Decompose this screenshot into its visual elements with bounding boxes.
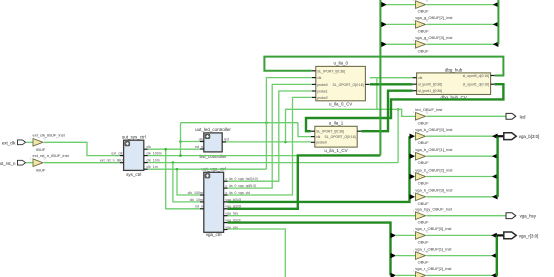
svg-text:OBUF: OBUF <box>418 28 430 33</box>
output port vga_b[3:0] <box>504 133 516 140</box>
svg-text:O: O <box>426 151 428 154</box>
svg-text:dbg_hub: dbg_hub <box>445 67 463 72</box>
svg-text:vga_r[3:0]: vga_r[3:0] <box>519 233 539 238</box>
svg-text:OBUF: OBUF <box>418 201 430 206</box>
svg-text:OBUF: OBUF <box>418 160 430 165</box>
wire to vga_b bus merge <box>427 135 498 137</box>
svg-text:clk: clk <box>317 76 321 80</box>
svg-text:sl_iport0_i[0:36]: sl_iport0_i[0:36] <box>418 83 442 87</box>
svg-text:ext_rst_n: ext_rst_n <box>0 161 16 166</box>
svg-text:O: O <box>426 131 428 134</box>
svg-text:ext_clk: ext_clk <box>2 140 16 145</box>
svg-text:sys_ctrl: sys_ctrl <box>126 172 141 177</box>
bus vga_r output merge vertical <box>496 235 498 276</box>
net vga_vsy <box>228 229 286 277</box>
svg-text:clk: clk <box>146 145 151 149</box>
junction rst_n <box>164 148 167 151</box>
svg-text:SL_OPORT_O[0:16]: SL_OPORT_O[0:16] <box>325 135 356 139</box>
svg-text:vga_hsy: vga_hsy <box>225 212 238 216</box>
wire clk riser near ila_0 <box>376 78 378 110</box>
junction clk at x265 <box>265 121 268 124</box>
svg-text:probe0: probe0 <box>317 83 328 87</box>
vga_ctrl right pins <box>224 180 228 182</box>
svg-text:clk: clk <box>418 76 422 80</box>
svg-text:sl_oport0_o[0:16]: sl_oport0_o[0:16] <box>463 74 489 78</box>
svg-text:OBUF: OBUF <box>418 260 430 265</box>
wire ext_rst_n port to IBUF <box>26 162 33 164</box>
u_ila_0 left pins <box>312 70 316 72</box>
buffer vga_g_OBUF[2]_inst <box>381 22 387 27</box>
wire ext_rst_n_IBUF to sys_ctrl <box>44 162 120 164</box>
svg-text:uut_sys_ctrl: uut_sys_ctrl <box>122 134 146 139</box>
svg-text:O: O <box>426 172 428 175</box>
svg-text:vga_b_OBUF[0]_inst: vga_b_OBUF[0]_inst <box>415 127 453 132</box>
bus vga_g output merge vertical <box>497 0 499 44</box>
svg-text:OBUF: OBUF <box>418 120 430 125</box>
svg-text:vga_b_OBUF[2]_inst: vga_b_OBUF[2]_inst <box>415 167 453 172</box>
svg-text:OBUF: OBUF <box>418 140 430 145</box>
net clk_1m <box>148 168 267 170</box>
svg-text:vga_b_OBUF[3]_inst: vga_b_OBUF[3]_inst <box>415 188 453 193</box>
svg-text:vga_g_OBUF[3]_inst: vga_g_OBUF[3]_inst <box>415 35 453 40</box>
svg-text:clk_10m: clk_10m <box>146 158 159 162</box>
buffer vga_g_OBUF[3]_inst <box>381 42 387 47</box>
svg-text:sl_oport1_o[0:16]: sl_oport1_o[0:16] <box>463 83 489 87</box>
output port vga_hsy <box>506 213 516 219</box>
wire vga_hsy to port <box>427 215 507 217</box>
wire to vga_g bus merge <box>427 4 499 6</box>
svg-text:O: O <box>426 230 428 233</box>
net vga_hsy <box>228 215 416 217</box>
u_ila_0 right pin SL_OPORT_O <box>365 83 369 85</box>
net o_ila_0_vga_hs0 <box>228 91 312 181</box>
wire to vga_r bus merge <box>427 274 497 276</box>
svg-text:clk_100m: clk_100m <box>188 191 203 195</box>
svg-text:clk_10m: clk_10m <box>190 198 203 202</box>
svg-text:vga_g_OBUF[2]_inst: vga_g_OBUF[2]_inst <box>415 15 453 20</box>
net o_ila_0_vga_vld <box>228 97 312 195</box>
bus vga_r : vga_ctrl to OBUF column <box>228 223 391 276</box>
svg-text:OBUF: OBUF <box>418 9 430 14</box>
bus u_ila_1 SL_OPORT_O to dbg_hub sl_iport1 <box>361 91 412 132</box>
wire to vga_b bus merge <box>427 176 498 178</box>
net led : led_controller to u_ila_1 probe0 and led_OBUF <box>226 141 311 143</box>
svg-text:O: O <box>426 39 428 42</box>
buffer vga_r_OBUF[0]_inst <box>391 233 397 238</box>
svg-text:OBUF: OBUF <box>418 181 430 186</box>
svg-text:IBUF: IBUF <box>36 167 46 172</box>
sys_ctrl right pins <box>144 148 148 150</box>
sys_ctrl left pins <box>120 155 124 157</box>
svg-text:vga_r_OBUF[1]_inst: vga_r_OBUF[1]_inst <box>415 246 452 251</box>
svg-text:u_ila_0_CV: u_ila_0_CV <box>329 102 352 107</box>
svg-text:vga_hsy_OBUF_inst: vga_hsy_OBUF_inst <box>415 207 453 212</box>
bus stub to vga_b port <box>498 135 504 137</box>
svg-text:O: O <box>426 111 428 114</box>
buffer vga_g_OBUF[1]_inst (clipped) <box>381 2 387 7</box>
svg-text:ext_clk: ext_clk <box>111 151 122 155</box>
net o_ila_0_vga_gd <box>228 84 312 188</box>
svg-text:clk: clk <box>199 137 204 141</box>
svg-text:probe2: probe2 <box>317 96 328 100</box>
svg-text:probe0: probe0 <box>316 141 327 145</box>
buffer vga_r_OBUF[2]_inst <box>391 273 397 277</box>
svg-text:OBUF: OBUF <box>418 48 430 53</box>
svg-text:ext_rst_n_IBUF_inst: ext_rst_n_IBUF_inst <box>33 153 70 158</box>
u_ila_1 left pins <box>311 130 315 132</box>
wire to vga_r bus merge <box>427 234 497 236</box>
wire to vga_g bus merge <box>427 23 499 25</box>
net clk to dbg_hub <box>370 77 413 79</box>
buffer vga_b_OBUF[1]_inst <box>410 154 416 159</box>
svg-text:O: O <box>426 270 428 273</box>
net clk_10m <box>148 162 398 164</box>
svg-text:SL_OPORT_O[0:16]: SL_OPORT_O[0:16] <box>333 83 364 87</box>
svg-text:u_ila_1: u_ila_1 <box>329 121 344 126</box>
u_ila_1 right pin SL_OPORT_O <box>357 130 361 132</box>
svg-text:rst_n: rst_n <box>195 205 203 209</box>
svg-text:IBUF: IBUF <box>36 147 46 152</box>
svg-text:vga_r_OBUF[0]_inst: vga_r_OBUF[0]_inst <box>415 226 452 231</box>
vga_ctrl left pins <box>200 194 204 196</box>
wire to vga_b bus merge <box>427 155 498 157</box>
svg-text:led: led <box>224 138 229 142</box>
svg-text:OBUF: OBUF <box>418 220 430 225</box>
bus vga_b : vga_ctrl to OBUF column <box>228 136 410 202</box>
wire ext_clk_IBUF to sys_ctrl ext_clk <box>44 142 120 155</box>
bus vga_g : vga_ctrl to top OBUF column <box>228 155 381 208</box>
svg-text:uut_led_controller: uut_led_controller <box>195 127 231 132</box>
svg-text:u_ila_1_CV: u_ila_1_CV <box>324 148 347 153</box>
svg-text:ext_clk_IBUF_inst: ext_clk_IBUF_inst <box>33 133 66 138</box>
svg-text:O: O <box>426 19 428 22</box>
output port vga_r[3:0] <box>504 232 516 239</box>
svg-text:vga_r_OBUF[2]_inst: vga_r_OBUF[2]_inst <box>415 266 452 271</box>
output port led <box>506 113 516 119</box>
bus vga_b output merge vertical <box>496 136 498 197</box>
svg-text:vga_b_OBUF[1]_inst: vga_b_OBUF[1]_inst <box>415 147 453 152</box>
dbg_hub left pins <box>413 77 417 79</box>
bus sl_oport0 : dbg_hub to u_ila_0 SL_IPORT_I <box>264 57 503 76</box>
buffer vga_b_OBUF[2]_inst <box>410 174 416 179</box>
svg-text:O: O <box>426 251 428 254</box>
svg-text:SL_IPORT_I[0:36]: SL_IPORT_I[0:36] <box>316 130 344 134</box>
led_controller pins <box>200 141 204 143</box>
svg-text:O: O <box>426 211 428 214</box>
buffer vga_b_OBUF[3]_inst <box>410 194 416 199</box>
svg-text:o_ila_0_vga_hs0[4:0]: o_ila_0_vga_hs0[4:0] <box>225 177 257 181</box>
svg-text:SL_IPORT_I[0:36]: SL_IPORT_I[0:36] <box>317 69 345 73</box>
svg-text:u_ila_0: u_ila_0 <box>333 61 348 66</box>
bus stub to vga_r port <box>497 234 504 236</box>
wire to vga_b bus merge <box>427 196 498 198</box>
svg-text:o_ila_0_vga_gd[5:0]: o_ila_0_vga_gd[5:0] <box>225 184 256 188</box>
wire to vga_g bus merge <box>427 43 499 45</box>
wire clk horizontal distribution <box>181 122 299 124</box>
svg-text:o_ila_0_vga_vld: o_ila_0_vga_vld <box>225 191 250 195</box>
svg-text:clk_100m: clk_100m <box>146 151 161 155</box>
junction clk at x180 <box>179 154 182 157</box>
svg-text:led: led <box>520 114 526 119</box>
svg-text:O: O <box>44 158 46 161</box>
svg-text:clk: clk <box>316 135 320 139</box>
buffer vga_r_OBUF[1]_inst <box>391 253 397 258</box>
wire clk to led_controller clk <box>181 141 200 143</box>
svg-text:vga_ctrl: vga_ctrl <box>206 232 222 237</box>
svg-text:O: O <box>426 192 428 195</box>
wire to vga_r bus merge <box>427 255 497 257</box>
bus u_ila_0 SL_OPORT_O to dbg_hub sl_iport0 <box>370 83 413 85</box>
dbg_hub right pins <box>491 75 495 77</box>
net rst_n : sys_ctrl to led_controller and vga_ctrl <box>148 148 200 150</box>
svg-text:vga_hsy: vga_hsy <box>520 214 537 219</box>
svg-text:OBUF: OBUF <box>418 239 430 244</box>
svg-text:led_OBUF_inst: led_OBUF_inst <box>415 107 443 112</box>
svg-text:probe1: probe1 <box>317 89 328 93</box>
svg-text:vga_b[3:0]: vga_b[3:0] <box>519 134 540 139</box>
wire clk up to u_ila_0 clk <box>266 78 311 170</box>
svg-text:sl_iport1_i[0:36]: sl_iport1_i[0:36] <box>418 89 442 93</box>
wire ext_clk port to IBUF <box>26 141 33 143</box>
svg-text:ext_rst_n_IBU: ext_rst_n_IBU <box>100 159 123 163</box>
bus sl_oport1 : dbg_hub to u_ila_1 SL_IPORT_I <box>306 84 503 131</box>
svg-text:rst_n: rst_n <box>195 145 203 149</box>
wire led to port <box>427 115 507 117</box>
buffer vga_b_OBUF[0]_inst <box>410 134 416 139</box>
net clk_100m trunk <box>148 155 298 157</box>
svg-text:O: O <box>426 0 428 3</box>
svg-text:clk_1m: clk_1m <box>146 165 157 169</box>
svg-text:O: O <box>44 137 46 140</box>
svg-text:led_controller: led_controller <box>199 154 227 159</box>
